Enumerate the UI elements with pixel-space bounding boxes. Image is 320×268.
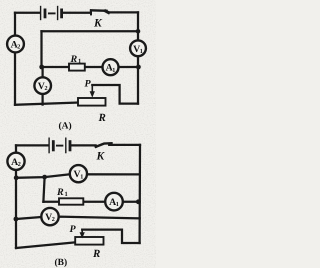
svg-text:1: 1 [140, 48, 143, 55]
junction dot: A A1 wire to right rail [136, 65, 141, 70]
junction dot: B V1 branch to R1 drop [42, 175, 47, 180]
battery cell 1 long plate (B) [48, 138, 50, 152]
battery cell 2 long plate (B) [65, 138, 67, 152]
svg-text:R: R [92, 248, 100, 260]
wire: B top middle segment (battery to switch) [71, 144, 95, 146]
ammeter A1 circle (A) [103, 59, 119, 75]
svg-text:P: P [70, 224, 77, 235]
battery cell 1 long plate (A) [40, 7, 42, 20]
resistor R1 box (B) [59, 198, 83, 204]
battery inter-cell dash (A) [49, 12, 55, 14]
junction dot: B left rail to V1 branch [14, 175, 19, 180]
voltmeter V1 circle (B) [70, 165, 87, 182]
wire: A bottom wire (left corner to rheostat) [15, 103, 78, 105]
battery cell 2 short thick plate (A) [60, 10, 63, 17]
wire: B right vertical rail [138, 145, 141, 243]
svg-text:P: P [85, 79, 92, 90]
wire: B bottom wire (left corner to rheostat) [16, 242, 75, 248]
junction dot: A inner-top wire to right rail [136, 29, 141, 34]
ammeter A1 circle (B) [105, 193, 123, 211]
junction dot: B A1 wire to right rail [136, 199, 141, 204]
wire: A inner-left vertical [40, 31, 42, 67]
switch K left contact dot (B) [94, 145, 97, 148]
voltmeter V1 circle (A) [130, 40, 146, 56]
svg-text:1: 1 [112, 67, 115, 74]
wire: B middle wire through R1 and A1 [43, 201, 139, 203]
battery cell 2 long plate (A) [57, 7, 59, 20]
svg-text:2: 2 [45, 85, 48, 92]
svg-text:(B): (B) [55, 258, 68, 268]
svg-text:K: K [96, 151, 106, 163]
junction dot: A inner-left vertical to middle wire [39, 65, 44, 70]
svg-text:1: 1 [65, 191, 68, 198]
wire: B vertical from V1-branch junction down to R1 row [43, 177, 44, 202]
wire: B V1 branch (left rail to right rail through V1) [16, 174, 140, 178]
wire: A bottom-right leg to rheostat slider [92, 85, 138, 104]
wire: A top-left segment (left corner to battery) [15, 12, 40, 14]
ammeter A2 circle (A) [7, 36, 24, 53]
svg-text:(A): (A) [59, 121, 72, 131]
battery cell 1 short thick plate (B) [52, 142, 55, 150]
wire: A right vertical rail (corner down to bottom leg) [137, 12, 139, 103]
battery cell 2 short thick plate (B) [69, 142, 72, 150]
svg-text:2: 2 [18, 161, 21, 168]
svg-text:1: 1 [80, 173, 83, 180]
wire: A middle wire through R1 and A1 [42, 66, 139, 68]
switch K lever (B) [96, 143, 112, 147]
battery inter-cell dash (B) [57, 145, 63, 147]
battery cell 1 short thick plate (A) [44, 10, 47, 17]
wire: B left vertical rail [15, 145, 17, 248]
rheostat slider arrow P (A) [90, 85, 95, 98]
wire: A top middle segment (battery to switch) [63, 12, 91, 14]
wire: B V2 branch (left rail to right rail through V2) [16, 217, 140, 219]
wire: B bottom-right leg to rheostat slider [82, 230, 139, 243]
wire: B top-left segment (left corner to battery) [16, 144, 48, 146]
resistor R1 box (A) [69, 64, 85, 71]
svg-text:K: K [93, 18, 103, 30]
wire: A V2 branch vertical (junction to bottom wire) [41, 67, 43, 105]
svg-text:2: 2 [52, 216, 55, 223]
svg-text:1: 1 [78, 58, 81, 65]
voltmeter V2 circle (A) [34, 77, 51, 94]
svg-text:R: R [70, 54, 78, 65]
wire: A inner top wire (parallel branch for V1) [42, 30, 139, 32]
ammeter A2 circle (B) [7, 153, 24, 170]
svg-text:2: 2 [17, 44, 20, 51]
switch K left tick (A) [90, 10, 92, 14]
wire: B top-right segment (switch to corner) [109, 144, 140, 146]
svg-text:1: 1 [116, 201, 119, 208]
rheostat slider arrow P (B) [80, 230, 85, 239]
switch K lever (A) [91, 9, 107, 12]
voltmeter V2 circle (B) [41, 208, 58, 225]
switch K right contact blob (A) [106, 11, 109, 13]
wire: A top-right segment (switch to corner) [108, 11, 138, 13]
wire: A left vertical rail [14, 13, 16, 105]
svg-text:R: R [56, 187, 64, 198]
rheostat R box (A) [78, 98, 106, 106]
junction dot: B left rail to V2 branch [14, 217, 19, 222]
svg-text:R: R [98, 112, 106, 124]
rheostat R box (B) [75, 237, 103, 245]
